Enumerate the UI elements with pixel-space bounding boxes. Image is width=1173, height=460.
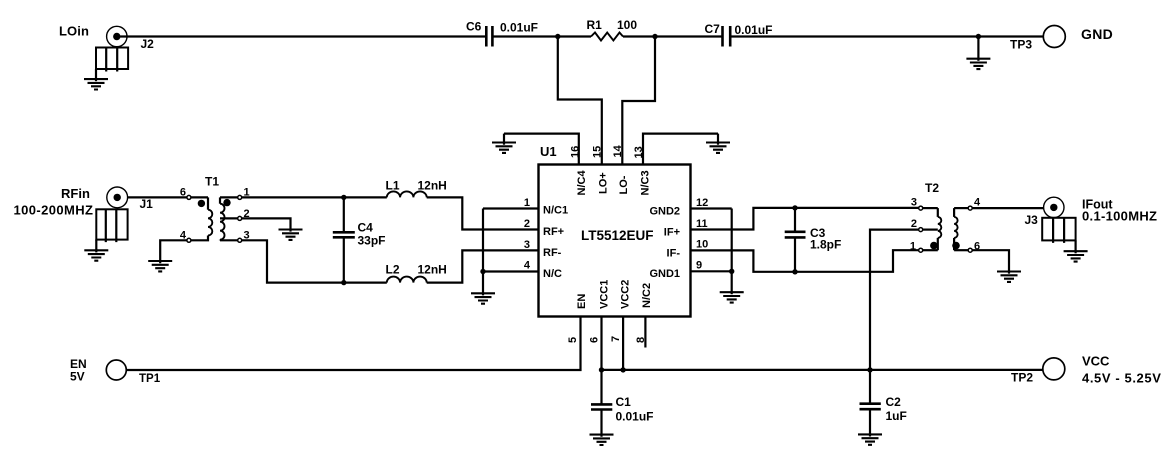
wire T2 pin 2 to VCC <box>870 230 919 370</box>
svg-text:12: 12 <box>696 197 708 209</box>
ground (T1 pin 2) <box>279 230 303 240</box>
ground (NC bus) <box>471 293 495 303</box>
transformer T2 <box>910 181 981 253</box>
wire VCC rail pin 6 to TP2 <box>602 317 1043 370</box>
node junction C4 bottom <box>341 280 346 285</box>
svg-text:RF+: RF+ <box>543 226 564 238</box>
node EN label <box>70 357 87 384</box>
wire pin13 to ground <box>643 134 718 165</box>
svg-text:2: 2 <box>524 218 530 230</box>
svg-text:J1: J1 <box>140 197 154 211</box>
svg-text:LOin: LOin <box>59 24 89 39</box>
node junction pin 6 VCC <box>599 367 604 372</box>
svg-text:N/C4: N/C4 <box>576 170 588 196</box>
wire T1 pin 3 to bottom rail <box>242 240 387 282</box>
wire EN rail TP1 to pin 5 <box>126 317 580 371</box>
svg-text:U1: U1 <box>540 144 557 159</box>
resistor R1 <box>587 18 638 41</box>
svg-text:5V: 5V <box>70 370 85 384</box>
svg-text:1uF: 1uF <box>886 409 907 423</box>
ground (pin 16) <box>492 134 516 153</box>
svg-text:1: 1 <box>910 241 916 253</box>
inductor L2 <box>386 263 447 283</box>
wire pin 9 to GND bus <box>691 270 732 272</box>
svg-text:6: 6 <box>589 337 601 343</box>
node junction LO right <box>652 34 657 39</box>
svg-text:TP1: TP1 <box>139 373 161 385</box>
svg-text:C2: C2 <box>886 395 902 409</box>
node junction C3 bottom <box>792 269 797 274</box>
ground (GND bus) <box>720 292 744 302</box>
capacitor C6 <box>466 20 538 47</box>
svg-text:J2: J2 <box>141 37 155 51</box>
svg-text:33pF: 33pF <box>358 234 386 248</box>
wire L2 to pin 3 <box>427 250 539 282</box>
ground (C2) <box>858 434 882 444</box>
node junction pin 7 VCC <box>620 367 625 372</box>
wire T1 pin 4 to ground <box>160 240 187 263</box>
svg-text:LO-: LO- <box>618 175 630 194</box>
svg-text:C6: C6 <box>466 20 482 34</box>
svg-text:RF-: RF- <box>543 247 562 259</box>
ground (T2 pin 6) <box>997 272 1021 282</box>
svg-text:N/C2: N/C2 <box>641 283 653 308</box>
node RFin label <box>14 186 94 218</box>
inductor L1 <box>386 179 447 198</box>
wire pin 12 to GND bus <box>691 207 732 209</box>
connector J3 <box>1025 197 1076 243</box>
svg-text:0.01uF: 0.01uF <box>500 21 538 35</box>
connector J2 <box>96 26 154 71</box>
svg-text:14: 14 <box>612 144 624 157</box>
wire pin16 to ground <box>504 134 579 165</box>
svg-text:12nH: 12nH <box>418 179 447 193</box>
wire T1 pin 2 to ground <box>242 218 291 231</box>
svg-text:0.01uF: 0.01uF <box>616 410 654 424</box>
ground (TP3 rail) <box>966 37 990 70</box>
wire pin 10 to IF- rail <box>691 250 919 272</box>
svg-text:L1: L1 <box>386 179 400 193</box>
svg-text:C4: C4 <box>358 221 374 235</box>
svg-text:6: 6 <box>180 187 186 199</box>
wire pin 4 to NC bus <box>483 270 539 272</box>
wire T2 pin 4 to J3 <box>972 207 1043 209</box>
ground (T1 pin 4) <box>148 261 172 271</box>
svg-text:RFin: RFin <box>61 186 90 201</box>
svg-text:0.01uF: 0.01uF <box>735 23 773 37</box>
test point TP1 <box>106 360 160 385</box>
node VCC label <box>1082 354 1161 386</box>
capacitor C2 <box>860 370 907 437</box>
svg-text:TP3: TP3 <box>1010 38 1032 52</box>
svg-text:10: 10 <box>696 239 708 251</box>
wire C7 to TP3 <box>731 35 1043 37</box>
ground (pin 13) <box>706 134 730 153</box>
svg-text:15: 15 <box>592 146 604 158</box>
svg-text:C7: C7 <box>705 22 721 36</box>
svg-text:VCC2: VCC2 <box>620 280 632 309</box>
wire LO rail J2 to C6 <box>120 35 485 37</box>
svg-text:4: 4 <box>524 260 531 272</box>
svg-text:9: 9 <box>696 260 702 272</box>
wire T2 pin 6 to ground <box>972 250 1009 273</box>
wire C6 to R1 <box>493 35 591 37</box>
node junction GND rail <box>976 34 981 39</box>
node IFout label <box>1082 198 1157 224</box>
svg-text:13: 13 <box>633 146 645 158</box>
node junction NC bus <box>480 269 485 274</box>
svg-text:7: 7 <box>610 336 622 342</box>
wire T1 pin 1 to L1 <box>242 196 387 198</box>
svg-text:GND1: GND1 <box>649 268 680 280</box>
svg-text:VCC: VCC <box>1082 354 1110 369</box>
svg-text:4: 4 <box>974 197 981 209</box>
connector J1 <box>96 187 153 242</box>
svg-text:3: 3 <box>911 197 917 209</box>
test point TP3 <box>1010 26 1065 52</box>
wire NC bus <box>482 209 484 296</box>
svg-text:100-200MHZ: 100-200MHZ <box>14 203 94 218</box>
IC U1 LT5512EUF <box>539 144 691 317</box>
capacitor C4 <box>333 197 386 282</box>
svg-text:TP2: TP2 <box>1011 371 1033 385</box>
svg-text:J3: J3 <box>1025 213 1039 227</box>
svg-text:11: 11 <box>696 218 708 230</box>
node junction C3 top <box>792 205 797 210</box>
svg-text:5: 5 <box>567 337 579 343</box>
svg-text:N/C1: N/C1 <box>543 205 568 217</box>
svg-text:N/C3: N/C3 <box>640 170 652 195</box>
ground (J3) <box>1064 240 1088 261</box>
svg-text:IF-: IF- <box>667 248 681 260</box>
svg-text:LT5512EUF: LT5512EUF <box>581 228 654 243</box>
wire R1 to C7 <box>623 35 722 37</box>
ground (J1) <box>84 240 108 261</box>
svg-text:12nH: 12nH <box>418 263 447 277</box>
ground (J2) <box>84 69 108 90</box>
svg-text:T2: T2 <box>925 181 939 195</box>
svg-text:R1: R1 <box>587 18 603 32</box>
capacitor C1 <box>591 370 654 437</box>
wire pin 11 to IF+ rail <box>691 208 919 230</box>
svg-text:C1: C1 <box>616 395 632 409</box>
svg-text:EN: EN <box>576 294 588 309</box>
wire pin 7 to VCC rail <box>622 317 624 370</box>
svg-text:1: 1 <box>524 197 530 209</box>
wire GND bus <box>731 209 733 295</box>
wire LO- riser (junction to pin 14) <box>622 37 655 165</box>
wire LO+ riser (junction to pin 15) <box>558 37 602 165</box>
svg-text:1.8pF: 1.8pF <box>810 238 841 252</box>
svg-text:GND: GND <box>1081 26 1113 42</box>
wire pin 1 to NC bus <box>483 207 539 209</box>
node junction LO left <box>555 34 560 39</box>
svg-text:16: 16 <box>570 146 582 158</box>
svg-text:LO+: LO+ <box>598 172 610 194</box>
svg-text:GND2: GND2 <box>649 206 680 218</box>
capacitor C7 <box>705 22 773 47</box>
wire J1 to T1 pin 6 <box>128 196 187 198</box>
svg-text:T1: T1 <box>205 175 219 189</box>
svg-text:4.5V - 5.25V: 4.5V - 5.25V <box>1082 371 1161 386</box>
svg-text:0.1-100MHZ: 0.1-100MHZ <box>1082 209 1157 224</box>
svg-text:IF+: IF+ <box>664 227 680 239</box>
ground (C1) <box>590 435 614 445</box>
svg-text:N/C: N/C <box>543 268 562 280</box>
svg-text:100: 100 <box>617 18 637 32</box>
test point TP2 <box>1011 358 1065 385</box>
wire pin 8 stub <box>644 317 646 348</box>
node junction GND bus <box>729 269 734 274</box>
capacitor C3 <box>785 208 842 272</box>
svg-text:L2: L2 <box>386 263 400 277</box>
svg-text:3: 3 <box>524 239 530 251</box>
node junction C2 VCC <box>867 367 872 372</box>
svg-text:2: 2 <box>911 218 917 230</box>
wire L1 to pin 2 <box>427 197 539 229</box>
transformer T1 <box>180 175 250 243</box>
svg-text:VCC1: VCC1 <box>599 280 611 309</box>
node junction C4 top <box>341 195 346 200</box>
